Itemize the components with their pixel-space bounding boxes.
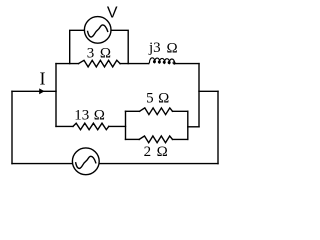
svg-text:5: 5 xyxy=(146,90,154,106)
svg-text:Ω: Ω xyxy=(167,40,178,56)
svg-text:13: 13 xyxy=(74,107,89,123)
ac source sine wave xyxy=(76,156,96,168)
resistor R 3ohm zigzag xyxy=(79,60,121,67)
wire voltmeter left lead xyxy=(70,30,85,63)
ac source circle xyxy=(72,148,99,175)
svg-text:2: 2 xyxy=(144,144,152,160)
voltmeter sine wave xyxy=(88,25,108,37)
svg-text:Ω: Ω xyxy=(158,90,169,106)
wire 2ohm branch left xyxy=(126,138,140,140)
wire middle branch left segment xyxy=(56,125,73,127)
resistor R 5ohm zigzag xyxy=(140,108,173,115)
resistor R 13ohm zigzag xyxy=(73,123,109,130)
wire right mid vertical xyxy=(198,64,200,127)
voltmeter V circle xyxy=(84,17,111,44)
wire outer right vertical xyxy=(217,91,219,163)
svg-text:3: 3 xyxy=(87,45,95,61)
svg-text:Ω: Ω xyxy=(94,107,105,123)
wire top rail left segment xyxy=(56,63,79,65)
resistor R 2ohm zigzag xyxy=(139,136,172,143)
wire top rail mid segment xyxy=(120,63,149,65)
wire bottom rail xyxy=(12,163,218,165)
svg-text:Ω: Ω xyxy=(157,144,168,160)
parallel box left vertical xyxy=(125,111,127,139)
wire top-right link xyxy=(199,90,218,92)
wire middle branch right segment xyxy=(109,125,126,127)
wire inner left vertical xyxy=(55,64,57,127)
wire parallel box output xyxy=(188,126,199,128)
current arrowhead I xyxy=(39,88,44,94)
parallel box right vertical xyxy=(187,111,189,139)
wire top rail right segment xyxy=(175,63,199,65)
wire 5ohm branch left xyxy=(126,110,140,112)
svg-text:V: V xyxy=(107,5,118,22)
inductor j3ohm coil xyxy=(149,58,175,64)
wire outer left vertical xyxy=(11,91,13,163)
wire 2ohm branch right xyxy=(173,138,188,140)
svg-text:Ω: Ω xyxy=(100,45,111,61)
svg-text:j3: j3 xyxy=(148,40,161,56)
svg-text:I: I xyxy=(40,68,46,88)
wire voltmeter right lead xyxy=(111,30,128,63)
wire 5ohm branch right xyxy=(173,110,188,112)
wire current-arrow branch xyxy=(12,90,56,92)
